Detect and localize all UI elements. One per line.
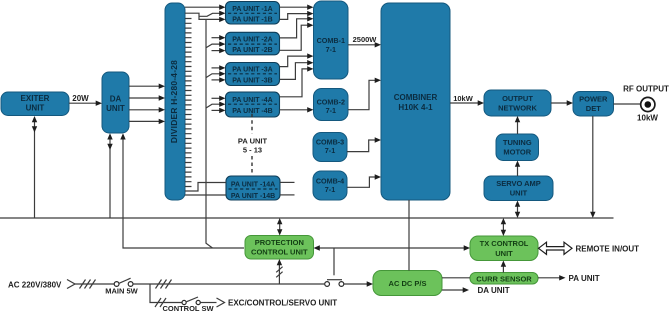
svg-text:PA UNIT -4A: PA UNIT -4A (232, 97, 272, 104)
wire power det to RF output connector (614, 103, 641, 105)
wire protection control down to AC line with hash (276, 259, 282, 284)
wire DA right down to protection control unit (120, 133, 244, 248)
svg-text:20W: 20W (72, 94, 89, 103)
PA unit 5-13 dashed continuation (238, 114, 268, 174)
wire PA-4B to comb-2 (280, 107, 314, 112)
svg-text:PA UNIT: PA UNIT (569, 274, 600, 283)
comb-4 7-1 (313, 171, 347, 200)
svg-text:7-1: 7-1 (326, 106, 336, 115)
wire servo amp to tuning motor (515, 161, 520, 177)
wire tuning motor to output network (515, 116, 520, 134)
wire bus to protection control (bidirectional) (277, 218, 282, 236)
wire comb-3 to combiner (347, 137, 381, 151)
wire power det down to bus (590, 116, 595, 218)
wire 20W exciter to DA (69, 94, 102, 106)
wire AC DC to curr sensor (442, 277, 470, 279)
wire AC DC to DA UNIT label (442, 286, 510, 295)
svg-text:PA UNIT -1A: PA UNIT -1A (232, 6, 272, 13)
svg-text:PA UNIT -2B: PA UNIT -2B (232, 47, 272, 54)
svg-text:UNIT: UNIT (510, 188, 528, 197)
RF output connector (641, 97, 655, 111)
combiner H10K 4-1 (381, 3, 450, 200)
divider output ticks (185, 19, 192, 187)
AC DC P/S (373, 271, 442, 296)
control switch (182, 297, 200, 305)
DA unit (102, 72, 129, 133)
PA unit 3A/3B box (226, 63, 280, 86)
svg-text:CONTROL SW: CONTROL SW (162, 304, 214, 313)
servo amp unit (484, 176, 553, 201)
output network (484, 90, 551, 116)
wire control switch to EXC open arrow (201, 298, 225, 307)
AC input open arrow (67, 280, 75, 289)
svg-text:7-1: 7-1 (326, 45, 336, 54)
wire to PA-1 mid (199, 11, 226, 17)
wire exciter to bus (bidirectional) (32, 116, 37, 218)
wire DA left to bus (bidirectional) (107, 133, 112, 218)
svg-text:UNIT: UNIT (106, 104, 125, 113)
wire divider to PA-1A (185, 5, 226, 10)
wire output network to power det (551, 100, 573, 105)
AC line with hash marks to main switch (75, 280, 114, 289)
svg-text:REMOTE IN/OUT: REMOTE IN/OUT (576, 244, 640, 253)
wire comb-4 to combiner (347, 174, 381, 187)
wires DA to divider (4 arrows) (129, 84, 165, 125)
wires to PA-2 inputs (206, 35, 226, 53)
divider H-280-4-28 (165, 3, 185, 200)
svg-text:10kW: 10kW (453, 94, 474, 103)
svg-text:PA UNIT -14A: PA UNIT -14A (231, 182, 275, 189)
wire bus to tx control (bidirectional) (501, 218, 506, 236)
PA unit 1A/1B box (226, 2, 280, 25)
svg-text:CONTROL UNIT: CONTROL UNIT (251, 248, 308, 257)
wire divider bracket to PA-1B (185, 13, 226, 22)
svg-text:MOTOR: MOTOR (503, 148, 531, 157)
wire combiner down to AC DC P/S (408, 200, 410, 271)
svg-text:10kW: 10kW (637, 114, 658, 123)
svg-text:PROTECTION: PROTECTION (255, 238, 304, 247)
PA unit 4A/4B box (226, 92, 280, 117)
wire protection to contactor coil (327, 248, 342, 280)
svg-text:AC DC P/S: AC DC P/S (389, 279, 427, 288)
wire combiner to output network 10kW (450, 94, 484, 106)
svg-text:CURR SENSOR: CURR SENSOR (476, 274, 532, 283)
svg-text:2500W: 2500W (353, 35, 378, 44)
svg-text:PA UNIT -1B: PA UNIT -1B (232, 16, 272, 23)
wire curr sensor up to tx control (501, 261, 506, 273)
bus line (0, 217, 614, 219)
svg-text:COMBINER: COMBINER (394, 93, 438, 102)
wire PA-1A to comb-1 (280, 5, 314, 10)
protection control unit (245, 236, 314, 260)
tx control unit (470, 236, 538, 261)
svg-text:RF OUTPUT: RF OUTPUT (623, 85, 669, 94)
svg-text:UNIT: UNIT (495, 249, 513, 258)
comb-2 7-1 (314, 89, 349, 121)
contactor contacts (325, 282, 344, 287)
wires divider to PA-14 (185, 183, 226, 196)
svg-text:DET: DET (586, 104, 601, 113)
wire contactor to AC DC P/S (344, 281, 373, 286)
svg-text:5 - 13: 5 - 13 (243, 146, 262, 155)
stub wires PA-14 outputs (280, 182, 295, 195)
PA unit 2A/2B box (226, 32, 280, 55)
svg-text:AC 220V/380V: AC 220V/380V (8, 280, 62, 289)
svg-text:OUTPUT: OUTPUT (502, 94, 533, 103)
svg-text:EXITER: EXITER (21, 94, 50, 103)
svg-text:H10K 4-1: H10K 4-1 (398, 103, 433, 112)
tuning motor (496, 134, 539, 161)
power det (573, 92, 614, 117)
AC line after main switch with hash marks (133, 280, 325, 289)
wire protection to tx control (bidirectional) (314, 245, 471, 250)
svg-text:PA UNIT -3B: PA UNIT -3B (232, 77, 272, 84)
svg-text:EXC/CONTROL/SERVO UNIT: EXC/CONTROL/SERVO UNIT (228, 299, 337, 308)
wire PA-4A to comb-1 (280, 66, 314, 97)
wire curr sensor to PA UNIT label (538, 274, 600, 283)
svg-text:TUNING: TUNING (503, 138, 532, 147)
svg-text:PA UNIT: PA UNIT (238, 137, 268, 146)
wires to PA-3 inputs (206, 65, 226, 82)
svg-text:TX CONTROL: TX CONTROL (480, 239, 529, 248)
main switch (114, 278, 133, 286)
wire PA-3B to comb-1 (280, 60, 314, 79)
svg-text:DA: DA (110, 95, 122, 104)
svg-text:7-1: 7-1 (325, 185, 335, 194)
comb-1 7-1 (314, 1, 349, 79)
wire divider vertical down to protection line (206, 19, 213, 248)
wires to PA-4 inputs (206, 96, 226, 114)
wire PA-1B to comb-1 (280, 11, 314, 20)
svg-text:MAIN 5W: MAIN 5W (105, 286, 138, 295)
svg-text:PA UNIT -2A: PA UNIT -2A (232, 37, 272, 44)
wire comb-2 to combiner (348, 78, 381, 110)
svg-text:PA UNIT -14B: PA UNIT -14B (231, 193, 275, 200)
branch to control switch (150, 284, 182, 307)
svg-text:SERVO AMP: SERVO AMP (496, 179, 541, 188)
remote in/out outline double arrow (539, 242, 573, 254)
wire PA-3A to comb-1 (280, 53, 314, 66)
svg-text:DA UNIT: DA UNIT (478, 286, 510, 295)
svg-text:NETWORK: NETWORK (498, 104, 537, 113)
svg-text:PA UNIT -3A: PA UNIT -3A (232, 67, 272, 74)
svg-text:POWER: POWER (579, 95, 608, 104)
exciter unit EXITER (1, 92, 69, 116)
curr sensor (470, 273, 538, 285)
wire servo amp to bus (bidirectional) (515, 201, 520, 219)
svg-text:7-1: 7-1 (325, 146, 335, 155)
wire comb-1 to combiner 2500W (348, 35, 381, 48)
svg-text:UNIT: UNIT (26, 104, 45, 113)
svg-text:DIVIDER H-280-4-28: DIVIDER H-280-4-28 (169, 60, 179, 143)
wire PA-2A to comb-1 (280, 16, 314, 38)
wire PA-2B to comb-1 (280, 23, 314, 51)
comb-3 7-1 (313, 133, 347, 162)
PA unit 14A/14B box (226, 176, 280, 200)
